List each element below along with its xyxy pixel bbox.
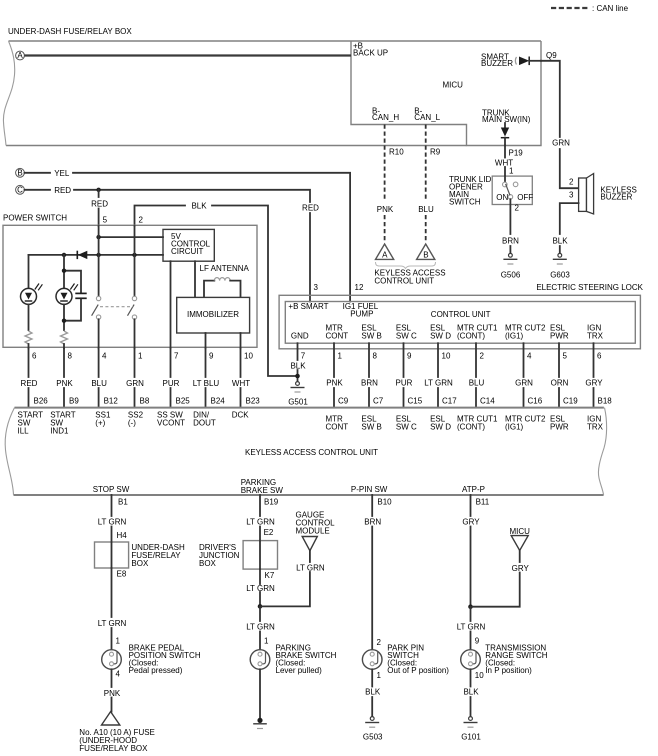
svg-text:2: 2 [377, 638, 382, 647]
wire LED1 to pin 6 [28, 344, 30, 348]
wire 5V control to immobilizer [194, 261, 196, 297]
svg-text:B1: B1 [118, 498, 128, 507]
keyless pin function labels right [326, 415, 604, 432]
svg-text:TRX: TRX [587, 332, 604, 341]
svg-text:SW B: SW B [361, 332, 381, 341]
wire SS2 to pin 1 [134, 319, 136, 348]
trunk lid opener main switch label [449, 175, 491, 207]
svg-text:VCONT: VCONT [157, 419, 185, 428]
svg-text:5: 5 [103, 216, 108, 225]
LED2 start sw ind1 [56, 255, 78, 330]
wire BLK keyless buzzer pin 3 to G603 [552, 203, 578, 252]
wire BLU pin4 to B12 [91, 348, 107, 407]
svg-text:POWER SWITCH: POWER SWITCH [3, 214, 67, 223]
svg-text:BLK: BLK [191, 202, 207, 211]
svg-text:B11: B11 [476, 498, 490, 507]
label brake pedal position switch [129, 644, 201, 676]
svg-text:MAIN SW(IN): MAIN SW(IN) [482, 115, 531, 124]
svg-text:BRN: BRN [361, 379, 378, 388]
diode D1 [77, 251, 87, 259]
svg-text:2: 2 [515, 204, 520, 213]
diode smart buzzer [515, 57, 541, 66]
svg-text:GRY: GRY [462, 518, 480, 527]
svg-text:LT GRN: LT GRN [98, 619, 127, 628]
svg-text:1: 1 [264, 637, 269, 646]
svg-text:LT GRN: LT GRN [246, 623, 275, 632]
svg-text:1: 1 [509, 167, 514, 176]
keyless pin function labels left [18, 411, 250, 436]
svg-text:G101: G101 [461, 733, 481, 742]
wire GRY B11 to junction [462, 495, 480, 607]
svg-text:P-PIN SW: P-PIN SW [351, 485, 388, 494]
svg-text:GRN: GRN [126, 379, 144, 388]
svg-text:(-): (-) [128, 419, 136, 428]
legend CAN line [551, 4, 629, 13]
svg-text:B25: B25 [176, 397, 191, 406]
triangle A keyless access [376, 244, 394, 260]
keyless buzzer speaker [579, 174, 637, 215]
wire BRN ESL pin8 to C7 [361, 343, 378, 407]
svg-text:R9: R9 [430, 148, 441, 157]
svg-text:B9: B9 [69, 397, 79, 406]
wire pin5 to switch SS1 [98, 226, 100, 296]
svg-text:SW B: SW B [361, 423, 381, 432]
svg-text:BRN: BRN [364, 518, 381, 527]
svg-text:2: 2 [480, 352, 485, 361]
svg-text:C16: C16 [528, 397, 543, 406]
label IG1 FUEL PUMP [343, 302, 379, 319]
svg-text:GRN: GRN [515, 379, 533, 388]
capacitor C1 [62, 269, 87, 323]
node B [16, 168, 25, 177]
ground G501 [288, 382, 308, 407]
svg-text:10: 10 [442, 352, 451, 361]
ESL control unit box [285, 302, 635, 344]
dashed CAN wire B-CAN_L to triangle B [418, 125, 434, 244]
wire PNK ESL pin1 to C9 [326, 343, 343, 407]
label fuse A10 [79, 728, 155, 753]
pin numbers power switch [32, 352, 253, 361]
svg-text:2: 2 [139, 216, 144, 225]
label parking brake switch [276, 644, 337, 676]
svg-text:FUSE/RELAY BOX: FUSE/RELAY BOX [79, 744, 148, 753]
wire BLK GND pin7 to G501 [290, 343, 306, 380]
wire pin2 to switch SS2 [134, 226, 136, 296]
svg-text:(CONT): (CONT) [457, 332, 485, 341]
wire LED2 to pin 8 [63, 344, 65, 348]
ESL pin numbers [301, 352, 602, 361]
wire immobilizer to pin 10 [240, 333, 242, 348]
wire BRN trunk lid switch to G506 [502, 199, 519, 252]
immobilizer U2 [177, 297, 250, 333]
svg-text:6: 6 [597, 352, 602, 361]
svg-text:G503: G503 [363, 733, 383, 742]
junction ATP node [468, 604, 473, 609]
wire diode rail [29, 253, 164, 257]
node A [16, 51, 25, 60]
svg-text:SW C: SW C [396, 332, 417, 341]
svg-text:(IG1): (IG1) [505, 423, 524, 432]
svg-text:CONTROL UNIT: CONTROL UNIT [431, 310, 491, 319]
svg-text:BACK UP: BACK UP [353, 49, 388, 58]
svg-text:C: C [17, 185, 23, 194]
wire GRN Q9 to keyless buzzer pin 2 [541, 61, 579, 188]
svg-text:(IG1): (IG1) [505, 332, 524, 341]
svg-text:B: B [17, 168, 22, 177]
svg-text:GND: GND [291, 332, 309, 341]
ESL pin function labels [326, 324, 604, 341]
svg-text:ORN: ORN [551, 379, 569, 388]
svg-text:SW D: SW D [430, 332, 451, 341]
svg-text:ILL: ILL [18, 427, 30, 436]
svg-text:G506: G506 [501, 271, 521, 280]
svg-text:7: 7 [301, 352, 306, 361]
svg-text:4: 4 [527, 352, 532, 361]
diode trunk main sw [501, 123, 509, 146]
svg-text:GRY: GRY [512, 564, 530, 573]
wire PNK pin8 to B9 [56, 348, 73, 407]
triangle gauge control module [302, 537, 317, 551]
svg-text:A: A [382, 251, 388, 260]
svg-text:WHT: WHT [232, 379, 250, 388]
svg-text:ON: ON [496, 193, 508, 202]
park pin switch [362, 650, 382, 670]
svg-text:BLU: BLU [91, 379, 107, 388]
svg-text:LT GRN: LT GRN [98, 518, 127, 527]
svg-text:SW C: SW C [396, 423, 417, 432]
power switch box [3, 214, 257, 348]
wire ORN ESL pin5 to C19 [551, 343, 569, 407]
wire LT GRN E8 to brake pedal switch [98, 568, 127, 650]
keyless access control unit strip [5, 408, 606, 495]
svg-text:PNK: PNK [56, 379, 73, 388]
wire LT GRN gauge module to junction [262, 551, 325, 607]
ESL outer box [279, 295, 640, 349]
svg-text:BOX: BOX [199, 559, 217, 568]
chassis ground parking brake [253, 718, 267, 729]
svg-text:(+): (+) [95, 419, 105, 428]
antenna coil L1 [204, 278, 241, 298]
triangle B keyless access [417, 244, 435, 260]
wire RED junction to power switch pin 5 [91, 190, 108, 226]
svg-text:Pedal pressed): Pedal pressed) [129, 666, 183, 675]
svg-text:LT GRN: LT GRN [424, 379, 453, 388]
wire YEL node B to ESL pin 12 [25, 169, 351, 302]
svg-text:9: 9 [407, 352, 412, 361]
svg-text:GRN: GRN [552, 139, 570, 148]
wire LT GRN B19 to E2 [246, 495, 275, 541]
svg-text:10: 10 [244, 352, 253, 361]
svg-text:BRN: BRN [502, 237, 519, 246]
label PARKING BRAKE SW [241, 478, 284, 495]
connector labels B26-B23 [34, 397, 261, 406]
svg-text:BRAKE SW: BRAKE SW [241, 486, 284, 495]
svg-text:MICU: MICU [443, 81, 464, 90]
svg-text:3: 3 [569, 191, 574, 200]
svg-text:MODULE: MODULE [296, 527, 330, 536]
svg-text:CONT: CONT [326, 332, 349, 341]
svg-text:Q9: Q9 [546, 51, 557, 60]
svg-text:YEL: YEL [54, 169, 70, 178]
svg-text:B23: B23 [246, 397, 261, 406]
wire WHT P19 to trunk lid switch [495, 146, 513, 177]
svg-text:B18: B18 [598, 397, 613, 406]
svg-text:8: 8 [373, 352, 378, 361]
wire LT BLU pin9 to B24 [193, 348, 220, 407]
dashed CAN wire B-CAN_H to triangle A [377, 125, 394, 244]
5V control circuit U1 [163, 229, 214, 261]
brake pedal position switch [102, 650, 122, 670]
svg-text:B26: B26 [34, 397, 49, 406]
wire BLK power switch pin 2 to G501 junction [135, 202, 298, 377]
triangle MICU [511, 536, 528, 551]
svg-text:B12: B12 [104, 397, 119, 406]
svg-text:G501: G501 [288, 398, 308, 407]
svg-text:IMMOBILIZER: IMMOBILIZER [187, 310, 239, 319]
junction parking brake node [258, 604, 263, 609]
svg-text:4: 4 [116, 670, 121, 679]
wire GRY ESL pin6 to B18 [585, 343, 603, 407]
wire 5V control to pin 7 [170, 261, 172, 348]
driver's junction box E2-K7 [199, 541, 278, 570]
svg-text:PWR: PWR [550, 332, 569, 341]
switch SS2 [128, 296, 137, 319]
svg-text:R10: R10 [389, 148, 404, 157]
MICU box [351, 41, 541, 146]
ground G603 [550, 253, 570, 279]
wire LT GRN junction to parking brake switch [246, 606, 275, 649]
svg-text:BLK: BLK [552, 237, 568, 246]
fuse A10 triangle [102, 712, 120, 725]
wire BRN B10 to park pin switch [364, 495, 381, 650]
svg-text:C7: C7 [373, 397, 384, 406]
ground G506 [501, 253, 521, 279]
label GAUGE CONTROL MODULE [296, 511, 336, 536]
wire PNK to fuse A10 [104, 669, 121, 711]
wire LT GRN K7 to junction [246, 569, 275, 606]
svg-text:5: 5 [563, 352, 568, 361]
svg-text:C14: C14 [480, 397, 495, 406]
switch SS1 [92, 296, 101, 319]
svg-text:RED: RED [54, 186, 71, 195]
svg-text:B24: B24 [211, 397, 226, 406]
svg-text:MICU: MICU [509, 527, 530, 536]
wire LT GRN B1 to H4 [98, 495, 127, 542]
svg-text:G603: G603 [550, 271, 570, 280]
svg-text:TRX: TRX [587, 423, 604, 432]
svg-text:DCK: DCK [232, 411, 250, 420]
wire WHT pin10 to B23 [232, 348, 250, 407]
svg-text:: CAN line: : CAN line [592, 4, 629, 13]
label park pin switch [387, 644, 449, 676]
svg-text:CIRCUIT: CIRCUIT [171, 247, 204, 256]
svg-text:9: 9 [475, 637, 480, 646]
connector labels C9-B18 [338, 397, 612, 406]
ground G101 [461, 717, 481, 742]
svg-text:B19: B19 [264, 498, 279, 507]
trunk lid opener main switch [492, 176, 533, 204]
svg-text:8: 8 [68, 352, 73, 361]
resistor R2 [61, 331, 68, 344]
svg-text:A: A [17, 51, 23, 60]
svg-text:LT GRN: LT GRN [246, 584, 275, 593]
dashed link SS1-SS2 [100, 306, 133, 308]
svg-text:BLK: BLK [463, 688, 479, 697]
svg-text:CONTROL UNIT: CONTROL UNIT [374, 277, 434, 286]
svg-text:B8: B8 [140, 397, 150, 406]
svg-text:1: 1 [377, 671, 382, 680]
svg-text:1: 1 [138, 352, 143, 361]
svg-text:KEYLESS ACCESS CONTROL UNIT: KEYLESS ACCESS CONTROL UNIT [245, 448, 378, 457]
svg-text:E2: E2 [264, 528, 274, 537]
svg-text:10: 10 [475, 671, 484, 680]
svg-text:B: B [423, 251, 428, 260]
svg-text:PUR: PUR [396, 379, 413, 388]
svg-text:CAN_L: CAN_L [414, 113, 440, 122]
wire RED pin6 to B26 [21, 348, 38, 407]
svg-text:GRY: GRY [585, 379, 603, 388]
svg-text:BUZZER: BUZZER [481, 59, 513, 68]
svg-text:LT GRN: LT GRN [296, 564, 325, 573]
wire parking brake switch to chassis ground [259, 669, 261, 718]
svg-text:1: 1 [116, 637, 121, 646]
svg-text:12: 12 [355, 283, 364, 292]
svg-text:LT GRN: LT GRN [246, 518, 275, 527]
svg-text:BUZZER: BUZZER [600, 193, 632, 202]
svg-text:Lever pulled): Lever pulled) [276, 666, 323, 675]
wire PUR pin7 to B25 [163, 348, 180, 407]
svg-text:LT GRN: LT GRN [457, 623, 486, 632]
svg-text:B10: B10 [377, 498, 392, 507]
svg-text:RED: RED [91, 200, 108, 209]
svg-text:LF ANTENNA: LF ANTENNA [200, 264, 250, 273]
svg-text:CAN_H: CAN_H [372, 113, 399, 122]
wire pin5 branch to 5V control [96, 235, 163, 239]
label transmission range switch [485, 644, 547, 676]
svg-text:4: 4 [102, 352, 107, 361]
under-dash fuse/relay box H4-E8 [95, 542, 185, 568]
wire RED node C to ESL pin 3 [25, 186, 320, 302]
under-dash fuse/relay box [3, 41, 541, 146]
wire GRN pin1 to B8 [126, 348, 144, 407]
svg-text:STOP SW: STOP SW [93, 485, 130, 494]
svg-text:ELECTRIC STEERING LOCK: ELECTRIC STEERING LOCK [536, 283, 643, 292]
svg-text:In P position): In P position) [485, 666, 532, 675]
wire GRY micu triangle to junction [473, 551, 530, 607]
svg-text:PNK: PNK [377, 205, 394, 214]
svg-text:CONT: CONT [326, 423, 349, 432]
svg-text:2: 2 [569, 178, 574, 187]
svg-text:E8: E8 [117, 570, 127, 579]
svg-text:3: 3 [314, 283, 319, 292]
svg-text:C17: C17 [442, 397, 457, 406]
svg-text:BLU: BLU [469, 379, 485, 388]
svg-text:+B SMART: +B SMART [288, 302, 328, 311]
svg-text:C19: C19 [563, 397, 578, 406]
wire BLU ESL pin2 to C14 [469, 343, 485, 407]
svg-text:LT BLU: LT BLU [193, 379, 220, 388]
svg-text:BOX: BOX [131, 559, 149, 568]
wire BLK park pin switch to G503 [365, 669, 381, 716]
wire PUR ESL pin9 to C15 [396, 343, 413, 407]
wire A to MICU [25, 54, 352, 56]
svg-text:PWR: PWR [550, 423, 569, 432]
wire BLK transmission range switch to G101 [463, 669, 479, 716]
svg-text:6: 6 [32, 352, 37, 361]
svg-text:DOUT: DOUT [193, 419, 216, 428]
ground G503 [363, 717, 383, 742]
svg-text:BLU: BLU [418, 205, 434, 214]
svg-text:BLK: BLK [365, 688, 381, 697]
svg-text:SW D: SW D [430, 423, 451, 432]
wire LT GRN junction to transmission range switch [457, 607, 486, 650]
resistor R1 [25, 331, 32, 344]
svg-text:7: 7 [174, 352, 179, 361]
svg-text:SWITCH: SWITCH [449, 198, 481, 207]
svg-text:H4: H4 [117, 531, 128, 540]
svg-text:9: 9 [209, 352, 214, 361]
svg-text:PNK: PNK [326, 379, 343, 388]
svg-text:PUR: PUR [163, 379, 180, 388]
svg-text:C15: C15 [408, 397, 423, 406]
svg-text:RED: RED [302, 204, 319, 213]
wire immobilizer to pin 9 [205, 333, 207, 348]
wire LT GRN ESL pin10 to C17 [424, 343, 453, 407]
svg-text:ATP-P: ATP-P [462, 485, 485, 494]
svg-text:BLK: BLK [290, 362, 306, 371]
svg-text:C9: C9 [338, 397, 349, 406]
svg-text:RED: RED [21, 379, 38, 388]
brace keyless access control unit [374, 262, 445, 286]
svg-text:PUMP: PUMP [350, 310, 373, 319]
wire SS1 to pin 4 [98, 319, 100, 348]
node C [16, 185, 25, 194]
LED1 start sw ill [21, 255, 43, 330]
svg-text:1: 1 [338, 352, 343, 361]
svg-text:OFF: OFF [517, 193, 533, 202]
svg-text:IND1: IND1 [50, 427, 69, 436]
svg-text:K7: K7 [265, 571, 275, 580]
svg-text:UNDER-DASH FUSE/RELAY BOX: UNDER-DASH FUSE/RELAY BOX [8, 27, 132, 36]
svg-text:P19: P19 [509, 149, 524, 158]
svg-text:Out of P position): Out of P position) [387, 666, 449, 675]
transmission range switch [461, 650, 481, 670]
wire GRN ESL pin4 to C16 [515, 343, 533, 407]
parking brake switch [250, 650, 270, 670]
svg-text:(CONT): (CONT) [457, 423, 485, 432]
svg-text:PNK: PNK [104, 689, 121, 698]
